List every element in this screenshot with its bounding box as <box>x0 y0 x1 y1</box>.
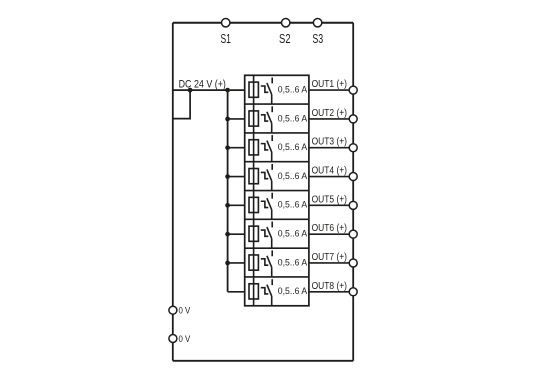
channel 6 fuse-switch group <box>249 219 272 248</box>
svg-text:0,5..6 A: 0,5..6 A <box>278 229 308 239</box>
wire channel 6 input stub <box>228 233 245 235</box>
terminal OUT6 <box>349 230 357 238</box>
svg-text:OUT4 (+): OUT4 (+) <box>312 166 347 177</box>
svg-text:0,5..6 A: 0,5..6 A <box>278 85 308 95</box>
wire OUT5 output <box>309 204 353 206</box>
wire bottom return rail <box>173 360 353 362</box>
channel divider 5/6 <box>245 218 309 220</box>
channel 8 fuse-switch group <box>249 277 272 306</box>
wire DC 24 V (+) feed <box>173 89 245 91</box>
junction bus node channel 7 <box>225 261 230 266</box>
channel block outline <box>245 75 309 305</box>
svg-text:0,5..6 A: 0,5..6 A <box>278 257 308 267</box>
svg-text:0,5..6 A: 0,5..6 A <box>278 286 308 296</box>
junction bus node channel 3 <box>225 145 230 150</box>
wire OUT8 output <box>309 291 353 293</box>
terminal OUT2 <box>349 115 357 123</box>
channel divider 6/7 <box>245 247 309 249</box>
channel 3 fuse-switch group <box>249 133 272 162</box>
wire OUT2 output <box>309 118 353 120</box>
wire channel 5 input stub <box>228 204 245 206</box>
channel divider 2/3 <box>245 132 309 134</box>
svg-text:S1: S1 <box>220 32 231 46</box>
wire + distribution bus <box>227 90 229 292</box>
terminal OUT7 <box>349 259 357 267</box>
svg-text:0,5..6 A: 0,5..6 A <box>278 142 308 152</box>
terminal OUT5 <box>349 201 357 209</box>
svg-text:0,5..6 A: 0,5..6 A <box>278 200 308 210</box>
wire OUT7 output <box>309 262 353 264</box>
svg-text:OUT7 (+): OUT7 (+) <box>312 252 347 263</box>
wire top supply rail S1-S3 <box>173 22 353 24</box>
channel divider 7/8 <box>245 276 309 278</box>
terminal S1 <box>222 19 230 27</box>
svg-text:0,5..6 A: 0,5..6 A <box>278 171 308 181</box>
svg-text:OUT3 (+): OUT3 (+) <box>312 137 347 148</box>
svg-text:0 V: 0 V <box>179 334 191 344</box>
terminal OUT4 <box>349 173 357 181</box>
wire OUT3 output <box>309 147 353 149</box>
terminal S3 <box>313 19 321 27</box>
channel 1 fuse-switch group <box>249 75 272 104</box>
wire channel 8 input stub <box>228 291 245 293</box>
wire left 0V bus <box>172 23 174 361</box>
wire channel 7 input stub <box>228 262 245 264</box>
svg-text:S2: S2 <box>279 32 291 46</box>
svg-text:OUT8 (+): OUT8 (+) <box>312 281 347 292</box>
wire right output bus <box>352 23 354 361</box>
svg-text:0 V: 0 V <box>179 306 191 316</box>
channel 5 fuse-switch group <box>249 191 272 220</box>
junction bus node channel 2 <box>225 117 230 122</box>
wire OUT6 output <box>309 233 353 235</box>
channel divider 3/4 <box>245 161 309 163</box>
svg-text:OUT2 (+): OUT2 (+) <box>312 108 347 119</box>
wire channel 3 input stub <box>228 147 245 149</box>
channel divider 1/2 <box>245 103 309 105</box>
terminal S2 <box>282 19 290 27</box>
junction bus node channel 6 <box>225 232 230 237</box>
channel divider 4/5 <box>245 190 309 192</box>
svg-text:OUT6 (+): OUT6 (+) <box>312 223 347 234</box>
terminal 0V lower <box>169 335 177 343</box>
wire OUT1 output <box>309 89 353 91</box>
channel 4 fuse-switch group <box>249 162 272 191</box>
channel 7 fuse-switch group <box>249 248 272 277</box>
terminal OUT1 <box>349 86 357 94</box>
wire OUT4 output <box>309 176 353 178</box>
terminal 0V upper <box>169 306 177 314</box>
terminal OUT3 <box>349 144 357 152</box>
wire channel 4 input stub <box>228 176 245 178</box>
svg-text:DC 24 V (+): DC 24 V (+) <box>179 79 226 91</box>
svg-text:OUT1 (+): OUT1 (+) <box>312 79 347 90</box>
junction input tab node <box>188 88 193 93</box>
terminal OUT8 <box>349 288 357 296</box>
junction bus node channel 5 <box>225 203 230 208</box>
junction bus node channel 4 <box>225 174 230 179</box>
wire channel 2 input stub <box>228 118 245 120</box>
svg-text:OUT5 (+): OUT5 (+) <box>312 194 347 205</box>
channel 2 fuse-switch group <box>249 104 272 133</box>
svg-text:S3: S3 <box>312 32 323 46</box>
junction bus node channel 1 <box>225 88 230 93</box>
svg-text:0,5..6 A: 0,5..6 A <box>278 113 308 123</box>
wire input tab loop <box>173 90 190 119</box>
